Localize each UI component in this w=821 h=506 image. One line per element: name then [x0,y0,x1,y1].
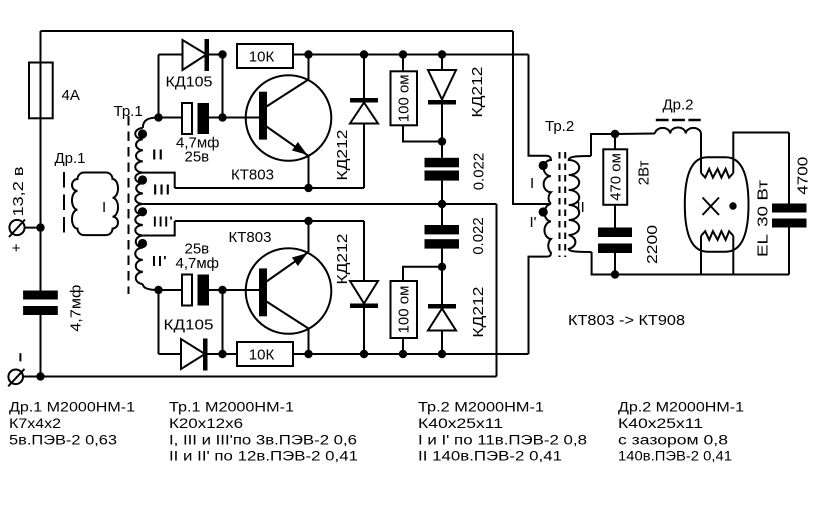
node junction R6/KD212-3 [360,350,368,358]
svg-text:4,7мф: 4,7мф [68,285,85,332]
wire 100ом-1 top lead [402,55,404,72]
wire Tr.2 II bottom to output rail [592,252,615,275]
wire R2 rail segment [309,54,529,56]
svg-text:4700: 4700 [795,157,812,195]
svg-text:10К: 10К [249,347,275,364]
svg-text:Др.2: Др.2 [663,97,694,114]
wire C4 bottom lead [441,249,443,304]
svg-text:К40х25х11: К40х25х11 [618,416,703,431]
wire cap C5 left lead [159,289,183,291]
wire terminal+ to rail [24,227,41,229]
node junction R2/KD212-1 [360,50,368,58]
node junction bottom cap/diode/winding [154,286,162,294]
diode VD5 KD212 triangle [350,281,378,304]
wire R6 rise to Tr.2 winding I' [529,257,547,354]
svg-text:К7х4х2: К7х4х2 [9,416,61,431]
node junction KD105/10K/base [218,50,226,58]
terminal + input top [9,220,25,238]
wire tap II-III jog [143,173,175,188]
capacitor C2 4,7мф plus plate [182,103,192,134]
svg-text:КД105: КД105 [164,317,214,334]
diode VD4 KD212 triangle [428,70,456,100]
wire base pullup vertical (top) [222,55,224,118]
wire KD105-2 left vertical [158,290,160,354]
wire R6 rail segment [309,353,529,355]
svg-text:Др.2 М2000НМ-1: Др.2 М2000НМ-1 [618,400,744,415]
wire cap C2 left lead [159,117,183,119]
wire base pulldown vertical (bottom) [222,290,224,354]
inductor Dr.2 winding [655,127,701,133]
wire 100ом-2 bottom lead [402,338,404,354]
diode VD4 KD212 cathode bar [428,100,456,105]
svg-text:II': II' [151,253,167,270]
transistor Q2 emitter arrow [293,254,306,265]
svg-text:Тр.1 М2000НМ-1: Тр.1 М2000НМ-1 [169,400,294,415]
diode VD2 KD105 cathode bar [203,339,208,371]
transistor Q2 base bar [259,268,267,316]
lamp X mark line2 [703,198,720,216]
wire 4700 top lead [788,133,790,204]
svg-text:с зазором 0,8: с зазором 0,8 [618,432,728,447]
wire KD105-2 cathode to node [208,353,223,355]
wire R5 emitter rail (bottom) [175,220,364,222]
svg-text:10К: 10К [249,49,275,66]
svg-text:I': I' [530,214,537,231]
svg-text:КТ803 -> КТ908: КТ803 -> КТ908 [568,312,685,329]
resistor R3 100 ом body [391,71,418,125]
diode VD3 KD212 triangle [350,103,378,124]
svg-text:I и I' по 11в.ПЭВ-2 0,8: I и I' по 11в.ПЭВ-2 0,8 [418,432,587,447]
transistor Q2 KT803 circle [246,248,332,334]
svg-text:0.022: 0.022 [470,217,487,255]
transistor Q1 base bar [259,92,267,140]
wire KD212-1 top lead [363,55,365,99]
wire bottom rail (minus) [41,376,497,378]
label - polarity [19,353,21,361]
lamp bottom filament zigzag [701,231,733,240]
wire emitter Q2 vertical [308,221,310,252]
svg-text:III: III [152,182,171,199]
wire KD212-3 top lead [363,221,365,281]
svg-text:100 ом: 100 ом [396,286,413,334]
svg-text:5в.ПЭВ-2 0,63: 5в.ПЭВ-2 0,63 [9,432,117,447]
node junction emitter rail (bottom) [304,217,312,225]
svg-text:КД212: КД212 [469,67,486,118]
lamp top filament zigzag [701,169,733,178]
wire tap III'-II' jog [143,221,175,236]
capacitor C1 4,7мф plate2 [23,306,58,315]
wire 10K right to collector node [293,54,309,56]
wire Tr.1 bottom lead to node [143,284,159,290]
wire 4700 bottom lead [788,228,790,275]
lamp dot mark [729,202,736,209]
resistor R5 470 ом body [603,149,627,205]
node dot winding III' top [138,207,147,216]
capacitor C7 4700 plate2 [772,219,807,228]
svg-text:II: II [151,147,164,164]
diode VD1 KD105 cathode bar [205,39,210,71]
resistor R2 10K body [237,342,293,366]
svg-text:Др.1 М2000НМ-1: Др.1 М2000НМ-1 [9,400,135,415]
svg-text:Тр.2 М2000НМ-1: Тр.2 М2000НМ-1 [418,400,544,415]
capacitor C4 0.022 plate1 [425,225,460,234]
node dot winding III top [138,175,147,184]
wire 100ом-1 bottom jog [403,125,442,141]
wire output bottom rail [615,274,789,276]
wire KD105-1 cathode to node [209,54,223,56]
svg-text:470 ом: 470 ом [608,153,625,201]
wire 10K-2 right to collector node [293,353,309,355]
svg-text:КД212: КД212 [334,130,351,181]
capacitor C7 4700 plate1 [772,204,807,213]
terminal - input bottom [8,369,24,386]
wire base lead Q1 [223,117,260,119]
transistor Q1 emitter line [267,127,309,157]
wire left rail lower (below C1) [40,315,42,377]
wire top rail drop to center tap [513,31,546,204]
wire KD105-2 anode lead [159,353,182,355]
wire lamp top-right to 4700 [733,133,789,174]
node junction rail/terminal- [36,372,44,380]
svg-text:Тр.2: Тр.2 [545,118,574,135]
diode VD5 KD212 cathode bar [350,304,378,309]
svg-text:II 140в.ПЭВ-2 0,41: II 140в.ПЭВ-2 0,41 [418,449,562,464]
wire R2 drop to Tr.2 winding I [529,55,547,156]
wire lamp bottom-left to rail [700,236,702,275]
wire Tr.2 II top to output rail [591,134,615,156]
node junction 10K-2/collector [304,350,312,358]
node junction cap/base wire (top) [218,113,226,121]
node junction C4/KD212-4/100ом-2 [438,263,446,271]
transformer Tr.2 winding I' [544,204,550,257]
svg-text:100 ом: 100 ом [396,74,413,122]
node junction rail/terminal+ [36,223,44,231]
inductor Dr.2 gap dash [656,119,701,122]
capacitor C6 2200 plate1 [598,228,632,238]
svg-text:4А: 4А [62,87,80,104]
svg-text:КД212: КД212 [334,234,351,285]
svg-text:К40х25х11: К40х25х11 [418,416,503,431]
transistor Q1 emitter arrow [293,143,306,154]
wire base lead Q2 [223,289,260,291]
capacitor C4 0.022 plate2 [425,239,460,248]
wire output top rail to Dr.2 [615,133,655,136]
capacitor C1 4,7мф plate1 [23,291,58,300]
svg-text:Др.1: Др.1 [55,150,86,167]
svg-text:0.022: 0.022 [471,153,488,191]
svg-text:КТ803: КТ803 [229,229,272,246]
transformer Tr.1 winding III [135,173,143,204]
svg-text:30 Вт: 30 Вт [755,180,772,227]
note winding spec column 2 [169,400,358,464]
wire 470ом to 2200 lead [614,205,616,228]
svg-text:+: + [12,240,21,257]
wire Tr.2 center tap stub [546,203,551,205]
node junction R6/100ом-2 [399,350,407,358]
transformer Tr.1 winding II [135,128,143,173]
svg-text:2Вт: 2Вт [636,160,653,185]
node junction R6/KD212-4 [438,350,446,358]
diode VD1 KD105 triangle [183,40,207,70]
wire KD212-2 to cap node [441,105,443,158]
transformer Tr.2 winding II [569,156,592,252]
wire KD105-1 anode lead [159,54,183,56]
wire terminal- to rail [23,376,41,378]
capacitor C5 4,7мф plus plate [182,275,192,306]
wire lamp bottom-right to rail [732,236,734,275]
wire R3 emitter rail (top) [175,187,364,189]
node junction KD212-2/100ом-1/cap [438,137,446,145]
svg-text:КТ803: КТ803 [231,167,274,184]
diode VD6 KD212 triangle [428,309,456,331]
wire 470ом top lead [614,134,616,149]
wire top rail from fuse to Tr.2 center-tap drop [41,30,514,32]
node junction KD105-2/10K-2 [218,350,226,358]
wire 10K-2 left lead [223,353,238,355]
wire KD212-2 top lead [441,55,443,71]
lamp X mark line1 [703,198,720,216]
node junction R2/100ом-1 [399,50,407,58]
wire C3 bottom to center node [441,181,443,225]
svg-text:140в.ПЭВ-2 0,41: 140в.ПЭВ-2 0,41 [618,449,732,464]
svg-text:II: II [577,199,585,216]
wire collector Q2 vertical [308,329,310,355]
wire cap C2 right to base node [209,117,223,119]
resistor R4 100 ом body [391,281,418,338]
node junction center caps/R4 [438,200,446,208]
wire collector Q1 vertical [308,55,310,80]
fuse F1 4A body [29,63,53,119]
node junction top cap/diode/winding [154,113,162,121]
svg-text:25в: 25в [185,149,210,166]
capacitor C2 4,7мф minus plate [198,103,210,134]
transformer Tr.1 core dash [128,116,130,294]
capacitor C3 0.022 plate2 [425,171,460,181]
transistor Q2 emitter line [267,252,309,282]
svg-text:III': III' [152,214,173,231]
transformer Tr.1 winding III' [135,204,143,236]
wire 2200 bottom lead [614,253,616,275]
wire Dr.2 to lamp top-left [700,134,702,174]
wire 100ом-2 top jog [403,267,442,281]
wire KD212-3 bottom lead [363,308,365,354]
wire emitter Q1 vertical [308,156,310,188]
transformer Tr.2 winding I [544,156,551,204]
wire KD212-1 bottom lead [363,124,365,189]
svg-text:2200: 2200 [644,225,661,264]
svg-text:КД212: КД212 [470,287,487,338]
svg-text:13,2 в: 13,2 в [10,166,27,216]
svg-text:К20х12х6: К20х12х6 [169,416,243,431]
transistor Q1 KT803 circle [246,75,332,161]
wire left rail upper (fuse branch) [40,31,42,291]
node junction emitter rail (top) [304,184,312,192]
wire KD212-4 bottom lead [441,331,443,355]
transformer Tr.1 winding II' [135,236,143,285]
inductor Dr.1 core dash [63,172,65,236]
transistor Q1 collector line [267,80,309,107]
transformer Tr.2 core dash right [564,152,566,257]
node dot winding II top [138,129,147,138]
node dot Tr.2 winding I' [539,207,548,216]
diode VD3 KD212 cathode bar [350,98,378,103]
capacitor C6 2200 plate2 [598,244,632,254]
wire center tap III-III' (R4 rail) [143,203,497,205]
node junction output top/470ом [611,130,619,138]
svg-text:I, III и III'по 3в.ПЭВ-2 0,6: I, III и III'по 3в.ПЭВ-2 0,6 [169,432,357,447]
note winding spec column 4 [618,400,744,464]
wire cap C5 right to base node [209,289,223,291]
diode VD2 KD105 triangle [181,339,205,369]
transformer Tr.2 core dash left [559,152,561,257]
inductor Dr.1 winding loop [72,173,118,236]
svg-text:I: I [102,199,106,216]
svg-text:КД105: КД105 [166,74,213,91]
wire Tr.1 top lead to node [143,118,159,129]
wire KD105-1 left vertical [158,55,160,118]
svg-text:II и II' по 12в.ПЭВ-2 0,41: II и II' по 12в.ПЭВ-2 0,41 [169,449,358,464]
svg-text:I: I [530,175,534,192]
node dot winding II' top [138,239,147,248]
capacitor C5 4,7мф minus plate [198,275,210,306]
node dot Tr.2 winding I [539,161,548,170]
note winding spec column 1 [9,400,135,448]
resistor R1 10K body [237,44,293,68]
node junction R2/KD212-2 [438,50,446,58]
diode VD6 KD212 cathode bar [428,304,456,309]
wire minus rail rise to R4 [496,204,498,377]
transistor Q2 collector line [267,302,309,329]
svg-text:4,7мф: 4,7мф [176,255,220,272]
capacitor C3 0.022 plate1 [425,158,460,168]
node junction cap/base wire (bottom) [218,286,226,294]
node junction 10K/collector (top) [304,50,312,58]
node junction output bottom/2200 [611,270,619,278]
svg-text:EL: EL [755,234,772,257]
note winding spec column 3 [418,400,587,464]
lamp EL bulb outline [685,157,749,251]
